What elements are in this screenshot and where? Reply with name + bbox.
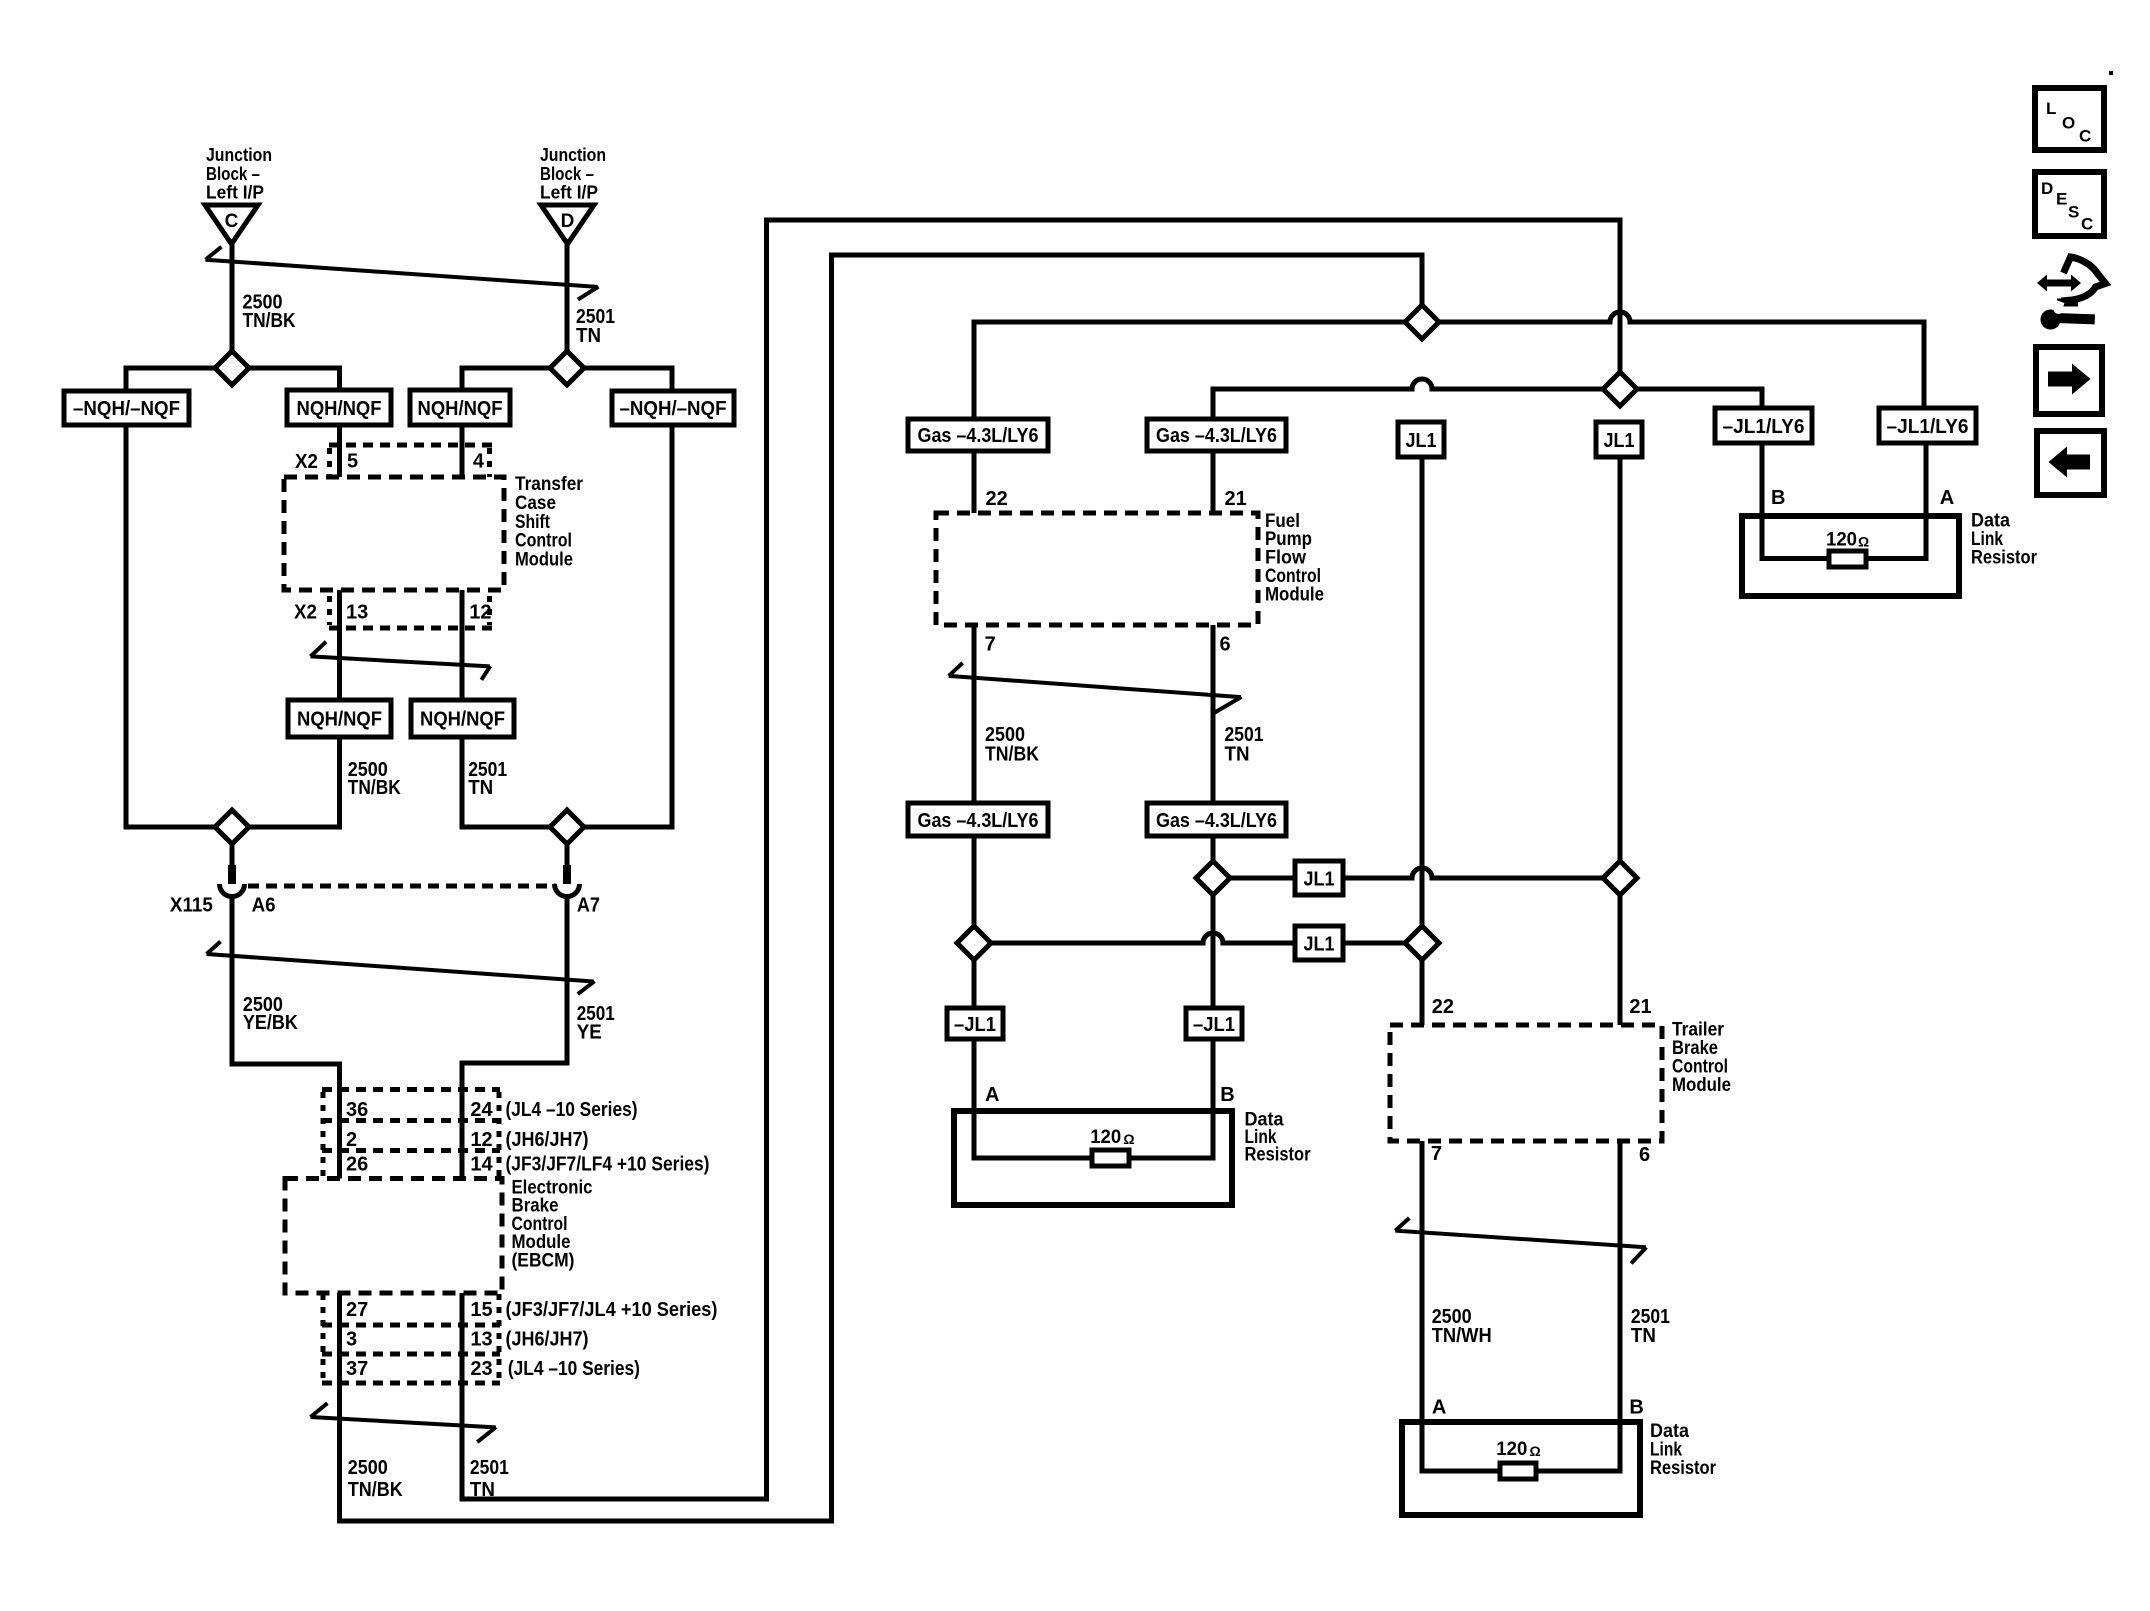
- svg-text:Control: Control: [515, 531, 572, 552]
- junction block D label: [540, 145, 606, 203]
- crossing arrow 5: [949, 663, 1242, 714]
- svg-text:26: 26: [346, 1154, 368, 1176]
- svg-text:JL1: JL1: [1304, 934, 1335, 956]
- svg-text:NQH/NQF: NQH/NQF: [297, 709, 382, 731]
- svg-text:7: 7: [985, 634, 996, 656]
- EBCM connector top dotted rows: [322, 1090, 500, 1179]
- label 120 ohm 3: [1826, 530, 1869, 551]
- wire -JL1/LY6 left down to resistor B: [1760, 443, 1765, 558]
- svg-text:Gas –4.3L/LY6: Gas –4.3L/LY6: [918, 425, 1039, 447]
- svg-text:TN/BK: TN/BK: [985, 744, 1039, 766]
- svg-text:Resistor: Resistor: [1971, 548, 2038, 569]
- svg-text:36: 36: [346, 1099, 368, 1121]
- transfer case shift control module dashed box: [284, 477, 504, 590]
- connector X115 pin A7: [555, 844, 580, 897]
- svg-text:–JL1/LY6: –JL1/LY6: [1887, 416, 1969, 438]
- option box Gas -4.3L/LY6 lower-left: [908, 803, 1048, 836]
- data link resistor 3 box: [1742, 516, 1959, 596]
- svg-text:2: 2: [346, 1129, 357, 1151]
- svg-text:24: 24: [470, 1099, 493, 1121]
- wire gas4 down to D3 and -JL1: [1211, 836, 1216, 1008]
- wire trailer pin 6 down: [1618, 1141, 1623, 1422]
- label 2501 TN top: [576, 306, 615, 347]
- splice diamond D2: [1603, 372, 1637, 406]
- svg-text:C: C: [2079, 127, 2091, 146]
- resistor element 3: [1829, 551, 1866, 567]
- svg-text:2501: 2501: [470, 1457, 509, 1479]
- svg-text:120: 120: [1090, 1127, 1121, 1148]
- svg-text:TN: TN: [1225, 744, 1250, 766]
- wire bus y943 D4 to D5: [974, 933, 1422, 943]
- junction block C label: [206, 145, 272, 203]
- wire bus y878 D3 to D6: [1213, 868, 1620, 878]
- svg-text:TN/BK: TN/BK: [348, 1479, 403, 1501]
- svg-text:120: 120: [1496, 1439, 1527, 1460]
- svg-text:7: 7: [1431, 1143, 1442, 1165]
- data link resistor 1 inner wire: [974, 1111, 1213, 1158]
- splice diamond D4: [957, 926, 991, 960]
- wire D vertical 2501: [565, 244, 570, 368]
- svg-text:12: 12: [469, 602, 491, 624]
- wire pin13 down: [337, 590, 342, 700]
- junction block D triangle: [541, 205, 594, 244]
- svg-text:Block –: Block –: [540, 164, 594, 184]
- wire A6 down: [232, 895, 340, 1179]
- svg-text:S: S: [2068, 203, 2079, 222]
- svg-text:2500: 2500: [348, 1457, 388, 1479]
- svg-text:A7: A7: [577, 895, 600, 917]
- option box -JL1 left: [947, 1008, 1003, 1039]
- wire trailer pin 7 down: [1420, 1141, 1425, 1422]
- connector X2 top dotted: [295, 445, 493, 477]
- data link resistor 3 inner wire: [1762, 516, 1926, 559]
- crossing arrow 4: [311, 1403, 497, 1442]
- wire -JL1/LY6 right down to resistor A: [1924, 443, 1929, 558]
- svg-text:Gas –4.3L/LY6: Gas –4.3L/LY6: [1156, 810, 1277, 832]
- svg-text:Transfer: Transfer: [515, 474, 584, 495]
- svg-text:3: 3: [346, 1329, 357, 1351]
- svg-text:B: B: [1771, 487, 1785, 509]
- wire gas2 to fuel pump pin 21: [1211, 451, 1216, 513]
- svg-text:E: E: [2056, 190, 2067, 209]
- EBCM top pin numbers: [346, 1099, 494, 1176]
- svg-text:Resistor: Resistor: [1245, 1145, 1312, 1166]
- svg-text:–NQH/–NQF: –NQH/–NQF: [73, 398, 180, 420]
- wire pin4 down: [460, 425, 465, 477]
- wire branch left y368: [126, 368, 340, 391]
- svg-text:22: 22: [986, 488, 1008, 510]
- option box JL1 top-right: [1596, 422, 1642, 457]
- LOC icon box: [2035, 88, 2104, 150]
- label 2500 TN/WH: [1432, 1306, 1492, 1347]
- option box -JL1/LY6 left: [1715, 408, 1812, 443]
- junction block C triangle: [205, 205, 258, 244]
- svg-text:(JH6/JH7): (JH6/JH7): [506, 1129, 589, 1151]
- wire branch right y368: [462, 368, 672, 391]
- EBCM bottom pin option labels: [506, 1299, 718, 1380]
- trailer brake control module dashed box: [1390, 1025, 1662, 1141]
- svg-text:Left I/P: Left I/P: [540, 183, 598, 203]
- data link resistor 2 inner wire: [1422, 1422, 1620, 1471]
- wire D5 down to trailer pin 22: [1420, 960, 1425, 1025]
- svg-text:NQH/NQF: NQH/NQF: [418, 398, 503, 420]
- crossing arrow 1: [206, 247, 599, 300]
- svg-text:Ω: Ω: [1123, 1131, 1134, 1147]
- option box -JL1/LY6 right: [1879, 408, 1976, 443]
- svg-text:5: 5: [347, 451, 358, 473]
- svg-text:TN/BK: TN/BK: [243, 310, 296, 332]
- DESC icon box: [2035, 172, 2104, 236]
- wire pin5 down: [337, 425, 342, 477]
- svg-text:120: 120: [1826, 530, 1857, 551]
- fuse box -NQH/-NQF right: [612, 391, 734, 425]
- svg-text:X2: X2: [294, 602, 317, 624]
- EBCM connector bottom dotted rows: [322, 1294, 500, 1383]
- label 2500 TN/BK top: [243, 292, 296, 333]
- splice diamond J1: [215, 351, 249, 385]
- wire gas1 to fuel pump pin 22: [972, 451, 977, 513]
- label 120 ohm 2: [1496, 1439, 1540, 1460]
- stray dot artifact: [2109, 71, 2113, 75]
- wire 2501 bus EBCM to top: [462, 220, 1620, 1499]
- connector X115 dashed line: [248, 884, 556, 889]
- svg-text:TN/WH: TN/WH: [1432, 1325, 1492, 1347]
- label 2501 YE: [577, 1003, 615, 1044]
- svg-text:A6: A6: [252, 895, 276, 917]
- svg-text:(JF3/JF7/JL4 +10 Series): (JF3/JF7/JL4 +10 Series): [506, 1299, 718, 1321]
- svg-text:D: D: [2041, 179, 2053, 198]
- connector X2 bottom dotted: [294, 596, 493, 628]
- fuse box -NQH/-NQF left: [64, 391, 189, 425]
- svg-text:X2: X2: [295, 451, 318, 473]
- svg-text:4: 4: [473, 451, 485, 473]
- svg-text:13: 13: [346, 602, 368, 624]
- svg-text:–JL1: –JL1: [1193, 1014, 1235, 1036]
- back arrow icon box: [2037, 431, 2104, 495]
- svg-text:21: 21: [1225, 488, 1247, 510]
- data link resistor 2 label: [1650, 1421, 1717, 1479]
- svg-text:JL1: JL1: [1604, 430, 1635, 452]
- splice diamond J2: [550, 351, 584, 385]
- svg-text:Junction: Junction: [206, 145, 272, 165]
- svg-text:Resistor: Resistor: [1650, 1458, 1717, 1479]
- svg-text:C: C: [225, 211, 239, 232]
- svg-text:(JL4 –10 Series): (JL4 –10 Series): [506, 1099, 638, 1121]
- wire D6 down to trailer pin 21: [1618, 895, 1623, 1025]
- svg-text:D: D: [561, 211, 575, 232]
- svg-text:(JH6/JH7): (JH6/JH7): [506, 1329, 589, 1351]
- label 2500 TN/BK mid: [348, 759, 401, 799]
- wire fuel pump pin 7 down: [972, 625, 977, 803]
- connector X115 pin A6: [220, 844, 245, 897]
- svg-text:NQH/NQF: NQH/NQF: [297, 398, 382, 420]
- next arrow icon box: [2036, 347, 2102, 414]
- splice diamond D3: [1196, 861, 1230, 895]
- svg-text:JL1: JL1: [1406, 430, 1437, 452]
- svg-text:YE: YE: [577, 1022, 602, 1044]
- svg-text:C: C: [2081, 215, 2093, 234]
- option box Gas -4.3L/LY6 top-right: [1147, 419, 1286, 451]
- wire A7 down: [462, 895, 567, 1179]
- label 2501 TN mid: [468, 759, 507, 799]
- wire fuel pump pin 6 down: [1211, 625, 1216, 803]
- wire right column down: [462, 425, 672, 827]
- wire JL1a down to D5: [1420, 457, 1425, 943]
- svg-text:–JL1: –JL1: [954, 1014, 996, 1036]
- fuse box NQH/NQF upper-right: [410, 390, 510, 425]
- svg-text:A: A: [1432, 1397, 1446, 1419]
- wire gas3 down to D4: [972, 836, 977, 943]
- wire left column down: [126, 425, 340, 827]
- trailer brake control module label: [1672, 1019, 1731, 1096]
- svg-text:Shift: Shift: [515, 512, 551, 533]
- option box -JL1 right: [1186, 1008, 1242, 1039]
- svg-text:Block –: Block –: [206, 164, 260, 184]
- svg-text:13: 13: [470, 1329, 492, 1351]
- svg-text:Ω: Ω: [1530, 1443, 1541, 1459]
- svg-text:A: A: [1940, 487, 1954, 509]
- svg-text:Gas –4.3L/LY6: Gas –4.3L/LY6: [918, 810, 1039, 832]
- data link resistor 3 label: [1971, 511, 2038, 569]
- svg-text:(EBCM): (EBCM): [512, 1250, 575, 1271]
- resistor element 2: [1500, 1463, 1536, 1479]
- label 2501 TN bottom: [470, 1457, 509, 1501]
- crossing arrow 3: [207, 942, 595, 995]
- wire D4 down to -JL1 left: [972, 960, 977, 1008]
- svg-text:NQH/NQF: NQH/NQF: [420, 709, 505, 731]
- splice diamond D6: [1603, 861, 1637, 895]
- wire -JL1 right down to resistor: [1211, 1039, 1216, 1158]
- wire 2500 bus EBCM to top: [340, 255, 1423, 1521]
- option box JL1 mid-lower: [1295, 926, 1343, 960]
- label 2500 YE/BK: [243, 994, 298, 1034]
- svg-text:B: B: [1220, 1084, 1234, 1106]
- fuse box NQH/NQF lower-left: [288, 700, 391, 737]
- fuel pump flow control module dashed box: [936, 513, 1258, 625]
- data link resistor 2 box: [1402, 1422, 1640, 1515]
- resistor element 1: [1092, 1150, 1129, 1166]
- option box Gas -4.3L/LY6 lower-right: [1147, 803, 1286, 836]
- svg-text:27: 27: [346, 1299, 368, 1321]
- wire pin12 down: [460, 590, 465, 700]
- svg-text:Module: Module: [1265, 584, 1324, 605]
- option box Gas -4.3L/LY6 top-left: [908, 419, 1048, 451]
- crossing arrow 6: [1395, 1218, 1646, 1263]
- data link resistor 1 label: [1245, 1110, 1312, 1166]
- svg-text:A: A: [985, 1084, 999, 1106]
- svg-text:TN: TN: [1631, 1325, 1656, 1347]
- label 120 ohm 1: [1090, 1127, 1134, 1148]
- svg-text:B: B: [1629, 1397, 1643, 1419]
- EBCM label: [512, 1178, 593, 1272]
- svg-text:YE/BK: YE/BK: [243, 1012, 298, 1034]
- svg-text:Junction: Junction: [540, 145, 606, 165]
- label 2501 TN middle: [1225, 724, 1264, 766]
- svg-text:12: 12: [470, 1129, 492, 1151]
- fuse box NQH/NQF lower-right: [411, 700, 514, 737]
- svg-text:–JL1/LY6: –JL1/LY6: [1723, 416, 1805, 438]
- splice diamond D5: [1405, 926, 1439, 960]
- EBCM bottom pin numbers: [346, 1299, 493, 1380]
- svg-text:–NQH/–NQF: –NQH/–NQF: [620, 398, 727, 420]
- wire -JL1 left down to resistor: [972, 1039, 977, 1158]
- svg-text:TN/BK: TN/BK: [348, 777, 401, 799]
- svg-text:Module: Module: [1672, 1075, 1731, 1096]
- svg-text:14: 14: [470, 1154, 493, 1176]
- svg-text:15: 15: [470, 1299, 492, 1321]
- option box JL1 mid-upper: [1295, 861, 1343, 895]
- svg-text:L: L: [2046, 99, 2056, 118]
- fuel pump flow control module label: [1265, 511, 1324, 606]
- svg-text:TN: TN: [576, 325, 601, 347]
- EBCM top pin option labels: [506, 1099, 710, 1176]
- EBCM dashed box: [285, 1179, 502, 1294]
- fuse box NQH/NQF upper-left: [287, 390, 391, 425]
- option box JL1 top-left: [1398, 422, 1444, 457]
- svg-text:TN: TN: [468, 777, 493, 799]
- svg-text:Left I/P: Left I/P: [206, 183, 264, 203]
- svg-text:X115: X115: [170, 895, 213, 917]
- svg-text:Ω: Ω: [1858, 534, 1869, 550]
- svg-text:21: 21: [1629, 996, 1651, 1018]
- splice diamond J3: [215, 810, 249, 844]
- svg-text:22: 22: [1432, 996, 1454, 1018]
- label 2501 TN right: [1631, 1306, 1670, 1347]
- label 2500 TN/BK middle: [985, 724, 1039, 766]
- svg-text:O: O: [2062, 114, 2075, 133]
- svg-text:23: 23: [470, 1358, 492, 1380]
- wire C vertical 2500: [230, 244, 235, 368]
- svg-text:Module: Module: [515, 550, 573, 571]
- splice diamond D1: [1405, 305, 1439, 339]
- wire JL1b down to D6: [1618, 457, 1623, 878]
- svg-text:Gas –4.3L/LY6: Gas –4.3L/LY6: [1156, 425, 1277, 447]
- wire 2500 bus horizontal y322: [974, 312, 1924, 419]
- svg-text:6: 6: [1639, 1144, 1650, 1166]
- svg-text:(JF3/JF7/LF4 +10 Series): (JF3/JF7/LF4 +10 Series): [506, 1154, 710, 1176]
- transfer case shift control module label: [515, 474, 584, 571]
- data link resistor 1 box: [954, 1111, 1232, 1205]
- label 2500 TN/BK bottom: [348, 1457, 403, 1501]
- wiring repair icon (arrows and wrench): [2037, 257, 2106, 330]
- svg-text:JL1: JL1: [1304, 869, 1335, 891]
- wire 2501 bus horizontal y389: [1213, 379, 1762, 419]
- svg-text:37: 37: [346, 1358, 368, 1380]
- svg-text:(JL4 –10 Series): (JL4 –10 Series): [508, 1358, 640, 1380]
- svg-text:6: 6: [1220, 634, 1231, 656]
- splice diamond J4: [550, 810, 584, 844]
- svg-text:Case: Case: [515, 493, 556, 514]
- crossing arrow 2: [311, 642, 491, 680]
